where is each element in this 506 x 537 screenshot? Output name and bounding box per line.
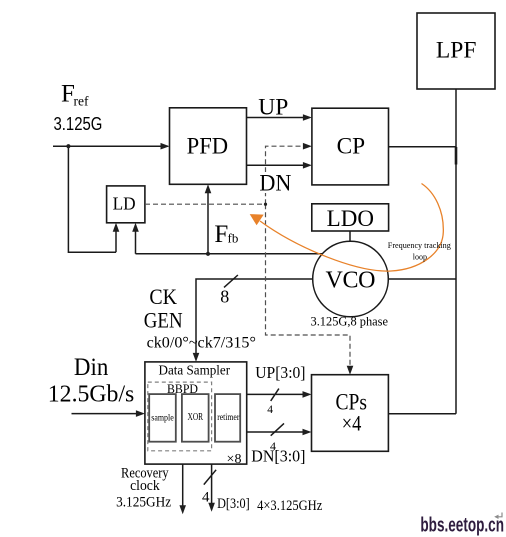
label Recovery xyxy=(121,466,169,482)
svg-text:ck0/0°~ck7/315°: ck0/0°~ck7/315° xyxy=(147,335,256,352)
wire recovery clock out xyxy=(182,464,184,506)
label Fref xyxy=(61,81,89,109)
wire LDO to VCO xyxy=(349,231,351,241)
slash bus 8 xyxy=(224,275,238,287)
dashed wire junction up to CP xyxy=(266,146,310,204)
block Data Sampler xyxy=(145,362,247,464)
label 3.125GHz xyxy=(116,494,171,510)
label XOR xyxy=(188,412,204,423)
junction dot Fref xyxy=(66,144,70,148)
svg-text:CP: CP xyxy=(337,133,366,158)
label 3.125G 8 phase xyxy=(311,314,389,329)
label D[3:0] xyxy=(217,496,250,512)
svg-text:ref: ref xyxy=(74,94,89,109)
svg-text:D[3:0]: D[3:0] xyxy=(217,496,250,512)
arrowhead into CP DN xyxy=(303,162,312,169)
subblock XOR xyxy=(182,394,209,442)
svg-text:Din: Din xyxy=(74,354,109,381)
label LPF xyxy=(436,38,477,63)
svg-text:clock: clock xyxy=(130,478,160,494)
svg-text:LD: LD xyxy=(113,194,136,214)
svg-text:retimer: retimer xyxy=(217,413,240,423)
oscillator VCO xyxy=(313,241,389,317)
wire CPs output xyxy=(388,413,456,415)
label DN[3:0] xyxy=(251,447,305,466)
svg-text:VCO: VCO xyxy=(326,268,376,294)
slash bus 4 bottom xyxy=(204,470,216,485)
label Frequency tracking xyxy=(388,241,451,250)
label 3.125G xyxy=(54,114,103,134)
return mark xyxy=(494,513,502,520)
block LPF xyxy=(417,13,495,89)
dashed wire junction down to CPs xyxy=(266,204,351,370)
label x4 xyxy=(342,411,362,436)
svg-text:bbs.eetop.cn: bbs.eetop.cn xyxy=(420,515,504,537)
svg-text:Data Sampler: Data Sampler xyxy=(159,364,231,379)
arrowhead into PFD bottom Ffb xyxy=(205,184,212,193)
label BBPD xyxy=(167,381,198,396)
slash bus 4 lower xyxy=(271,423,284,435)
svg-text:DN: DN xyxy=(259,170,291,195)
slash bus 4 upper xyxy=(271,389,279,401)
svg-text:3.125GHz: 3.125GHz xyxy=(116,494,171,510)
svg-text:LDO: LDO xyxy=(327,206,374,231)
label PFD xyxy=(187,133,229,158)
svg-text:UP[3:0]: UP[3:0] xyxy=(255,363,305,382)
label VCO xyxy=(326,268,376,294)
svg-text:UP: UP xyxy=(258,95,288,120)
svg-text:F: F xyxy=(214,221,228,248)
svg-text:XOR: XOR xyxy=(188,412,204,423)
label CP xyxy=(337,133,366,158)
dashed wire LD to junction xyxy=(145,203,266,205)
svg-text:BBPD: BBPD xyxy=(167,381,198,396)
arrowhead into CPs top dashed xyxy=(347,366,354,375)
label Din xyxy=(74,354,109,381)
wire Ffb to PFD xyxy=(207,187,209,254)
subblock retimer xyxy=(215,394,240,442)
svg-text:Frequency tracking: Frequency tracking xyxy=(388,241,451,250)
label UP xyxy=(258,95,288,120)
svg-text:CK: CK xyxy=(149,284,177,309)
wire UP[3:0] bus xyxy=(247,393,309,395)
wire DN[3:0] bus xyxy=(247,431,309,433)
label 4x3.125GHz xyxy=(257,498,322,514)
label bus width 4 lower xyxy=(270,439,276,453)
wire UP PFD to CP xyxy=(247,117,310,119)
label GEN xyxy=(144,308,183,333)
block LDO xyxy=(312,204,389,231)
svg-text:PFD: PFD xyxy=(187,133,229,158)
wire Din input xyxy=(72,413,143,415)
svg-text:loop: loop xyxy=(413,252,427,261)
watermark bbs.eetop.cn xyxy=(420,515,504,537)
label bus width 4 upper xyxy=(267,404,273,416)
wire VCO right to control line xyxy=(388,278,456,280)
label CPs xyxy=(335,390,367,415)
label LDO xyxy=(327,206,374,231)
svg-text:4: 4 xyxy=(267,404,273,416)
dashed box BBPD xyxy=(148,382,212,451)
svg-text:8: 8 xyxy=(220,287,229,307)
svg-text:fb: fb xyxy=(228,231,239,246)
label UP[3:0] xyxy=(255,363,305,382)
wire LD right input xyxy=(135,225,137,254)
orange arrowhead xyxy=(250,214,264,225)
svg-text:sample: sample xyxy=(151,414,174,424)
wire CK VCO to Data Sampler xyxy=(196,279,313,360)
arrowhead D out down xyxy=(208,503,215,512)
svg-text:GEN: GEN xyxy=(144,308,183,333)
label Ffb xyxy=(214,221,238,248)
wire feedback from VCO xyxy=(136,253,323,255)
arrowhead into LD left xyxy=(113,223,120,232)
junction dot Ffb xyxy=(206,252,210,256)
wire D[3:0] out xyxy=(211,464,213,504)
wire control line vertical xyxy=(455,89,457,414)
label bus width 4 bottom xyxy=(202,490,210,506)
wire LD left input xyxy=(115,225,117,252)
arrowhead into Data Sampler left Din xyxy=(136,410,145,417)
wire control line thick segment xyxy=(455,147,458,165)
arrowhead recovery clock down xyxy=(179,505,186,514)
label DN xyxy=(258,170,294,195)
label 12.5Gb/s xyxy=(48,382,135,408)
subblock sample xyxy=(149,394,176,442)
orange frequency tracking loop arc xyxy=(260,184,443,272)
svg-text:DN[3:0]: DN[3:0] xyxy=(251,447,305,466)
svg-text:4: 4 xyxy=(202,490,210,506)
arrowhead into CPs DN bus xyxy=(303,429,312,436)
arrowhead into LD right xyxy=(132,223,139,232)
label bus width 8 xyxy=(220,287,229,307)
label loop xyxy=(413,252,427,261)
label CK xyxy=(149,284,177,309)
wire Fref input xyxy=(53,145,168,147)
label x8 xyxy=(227,452,242,467)
arrowhead into CP dashed xyxy=(303,143,312,150)
svg-text:4: 4 xyxy=(270,439,276,453)
wire DN PFD to CP xyxy=(247,164,310,166)
label Data Sampler xyxy=(159,364,231,379)
svg-text:3.125G: 3.125G xyxy=(54,114,103,134)
block CPs x4 xyxy=(312,375,389,452)
wire Fref branch down xyxy=(68,146,116,252)
junction dot dashed xyxy=(264,203,267,206)
label LD xyxy=(113,194,136,214)
svg-text:3.125G,8 phase: 3.125G,8 phase xyxy=(311,314,389,329)
label ck0 to ck7 xyxy=(147,335,256,352)
block CP xyxy=(312,108,389,185)
svg-text:12.5Gb/s: 12.5Gb/s xyxy=(48,382,135,408)
block LD xyxy=(107,186,145,223)
arrowhead into CP UP xyxy=(303,114,312,121)
arrowhead into Data Sampler top xyxy=(193,353,200,362)
svg-text:×8: ×8 xyxy=(227,452,242,467)
block PFD xyxy=(170,108,247,185)
arrowhead into CPs UP bus xyxy=(303,391,312,398)
arrowhead into PFD left xyxy=(161,143,170,150)
label sample xyxy=(151,414,174,424)
label clock xyxy=(130,478,160,494)
svg-text:4×3.125GHz: 4×3.125GHz xyxy=(257,498,322,514)
svg-text:×4: ×4 xyxy=(342,411,362,436)
wire CP output xyxy=(389,146,457,148)
label retimer xyxy=(217,413,240,423)
svg-text:LPF: LPF xyxy=(436,38,477,63)
